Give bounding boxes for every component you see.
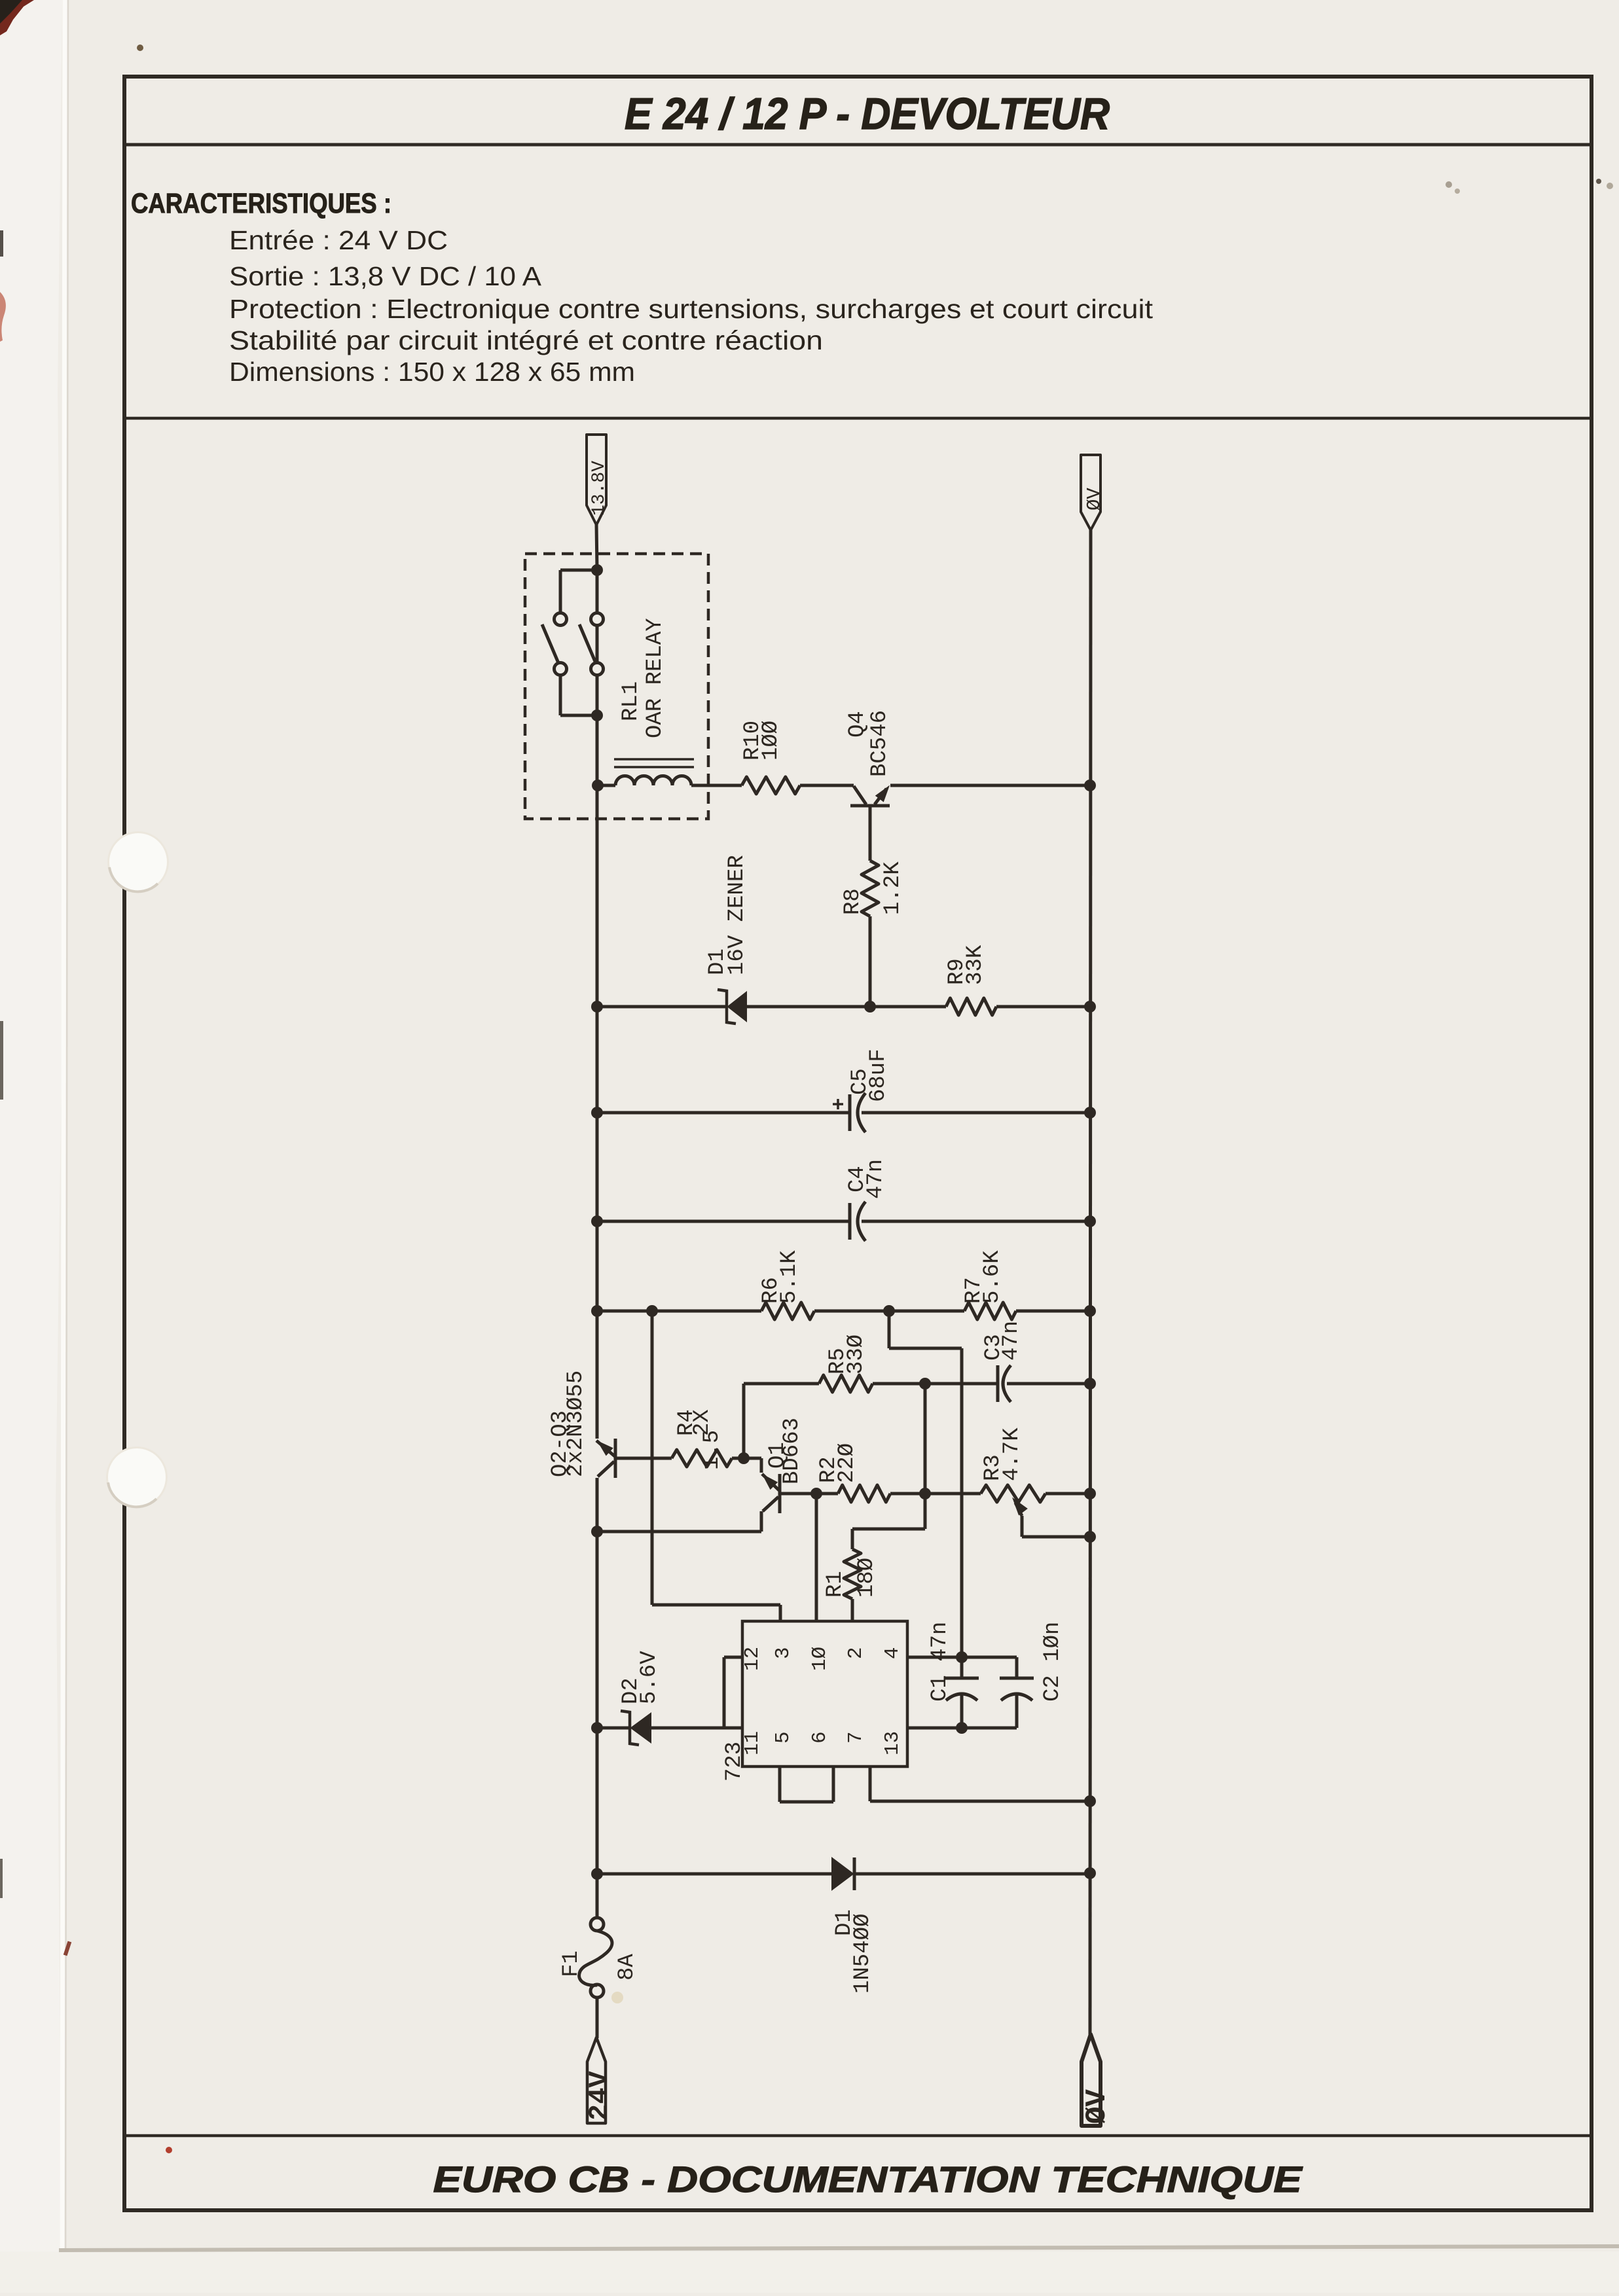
svg-text:E 24 / 12 P - DEVOLTEUR: E 24 / 12 P - DEVOLTEUR bbox=[625, 89, 1110, 139]
svg-text:1Ø: 1Ø bbox=[809, 1647, 831, 1671]
svg-text:CARACTERISTIQUES :: CARACTERISTIQUES : bbox=[131, 188, 391, 219]
svg-text:BD663: BD663 bbox=[780, 1418, 805, 1484]
svg-text:1N54ØØ: 1N54ØØ bbox=[850, 1914, 875, 1994]
svg-text:5.6K: 5.6K bbox=[980, 1250, 1005, 1304]
svg-text:1ØØ: 1ØØ bbox=[759, 721, 784, 761]
svg-text:OAR RELAY: OAR RELAY bbox=[643, 618, 668, 738]
svg-text:3: 3 bbox=[772, 1647, 795, 1659]
svg-text:1.2K: 1.2K bbox=[881, 861, 905, 915]
svg-text:R1: R1 bbox=[823, 1571, 848, 1598]
svg-text:33K: 33K bbox=[963, 944, 988, 985]
svg-text:12: 12 bbox=[741, 1647, 764, 1671]
svg-text:F1: F1 bbox=[559, 1950, 584, 1977]
svg-text:Entrée : 24 V DC: Entrée : 24 V DC bbox=[229, 225, 448, 255]
svg-text:13.8V: 13.8V bbox=[589, 461, 609, 516]
svg-text:68uF: 68uF bbox=[866, 1049, 891, 1102]
svg-text:24V: 24V bbox=[584, 2071, 615, 2121]
svg-text:R8: R8 bbox=[841, 888, 865, 915]
svg-text:8A: 8A bbox=[615, 1954, 640, 1981]
svg-text:Stabilité par circuit intégré: Stabilité par circuit intégré et contre … bbox=[229, 325, 823, 355]
svg-text:C2 1Øn: C2 1Øn bbox=[1040, 1622, 1065, 1702]
svg-text:11: 11 bbox=[741, 1731, 764, 1755]
svg-text:Protection : Electronique cont: Protection : Electronique contre surtens… bbox=[229, 294, 1154, 324]
svg-text:ØV: ØV bbox=[1083, 488, 1105, 511]
svg-text:18Ø: 18Ø bbox=[854, 1558, 879, 1598]
svg-text:ØV: ØV bbox=[1081, 2089, 1114, 2124]
svg-text:47n: 47n bbox=[864, 1159, 888, 1199]
svg-text:Q4: Q4 bbox=[845, 711, 870, 738]
svg-text:4: 4 bbox=[881, 1647, 904, 1659]
svg-text:RL1: RL1 bbox=[619, 681, 644, 721]
svg-text:5.1K: 5.1K bbox=[777, 1250, 802, 1304]
svg-text:47n: 47n bbox=[999, 1321, 1024, 1361]
svg-text:2: 2 bbox=[845, 1647, 867, 1659]
svg-text:Sortie : 13,8 V DC / 10 A: Sortie : 13,8 V DC / 10 A bbox=[229, 261, 542, 291]
svg-text:1.5: 1.5 bbox=[700, 1430, 725, 1470]
svg-text:Dimensions : 150 x 128 x 65 mm: Dimensions : 150 x 128 x 65 mm bbox=[229, 357, 635, 387]
svg-text:2x2N3Ø55: 2x2N3Ø55 bbox=[564, 1371, 589, 1477]
svg-text:5.6V: 5.6V bbox=[637, 1651, 662, 1704]
svg-text:EURO CB - DOCUMENTATION TECHNI: EURO CB - DOCUMENTATION TECHNIQUE bbox=[433, 2159, 1303, 2200]
svg-text:33Ø: 33Ø bbox=[844, 1335, 869, 1374]
svg-text:6: 6 bbox=[809, 1731, 831, 1744]
svg-text:4.7K: 4.7K bbox=[1000, 1427, 1025, 1481]
svg-text:22Ø: 22Ø bbox=[835, 1443, 860, 1483]
svg-text:7: 7 bbox=[845, 1731, 867, 1744]
svg-text:13: 13 bbox=[881, 1731, 904, 1755]
svg-text:5: 5 bbox=[772, 1731, 795, 1744]
svg-text:BC546: BC546 bbox=[867, 710, 892, 777]
svg-text:16V ZENER: 16V ZENER bbox=[725, 855, 750, 975]
svg-text:C1 47n: C1 47n bbox=[928, 1622, 953, 1702]
